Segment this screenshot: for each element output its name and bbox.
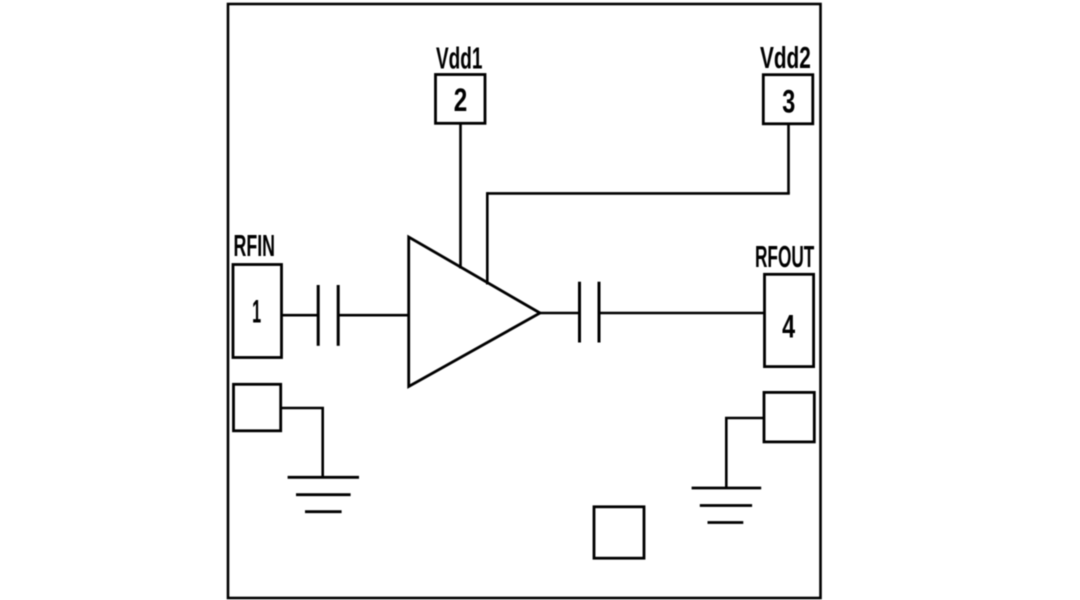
wire right ground pad horizontal — [725, 417, 764, 420]
bottom unconnected pad box — [594, 507, 644, 558]
wire amplifier output to capacitor C2 — [540, 312, 580, 315]
ground symbol left bar 2 — [296, 493, 351, 496]
svg-text:Vdd2: Vdd2 — [760, 40, 811, 75]
wire Vdd1 stub to amplifier — [459, 123, 462, 268]
wire left ground pad vertical — [321, 408, 324, 477]
wire left ground pad horizontal — [281, 407, 324, 410]
wire Vdd2 feed horizontal — [487, 192, 790, 195]
wire capacitor C2 to RFOUT pad — [599, 312, 765, 315]
ground symbol right bar 1 — [692, 487, 762, 490]
pad 1 box (RFIN) — [233, 265, 282, 358]
wire Vdd2 feed vertical to amplifier — [486, 192, 489, 284]
pad 4 box (RFOUT) — [765, 274, 814, 366]
ground symbol right bar 3 — [708, 521, 744, 524]
pad 2 box (Vdd1) — [436, 75, 486, 124]
svg-text:RFIN: RFIN — [234, 228, 276, 263]
left ground pad box — [234, 384, 281, 431]
wire RFIN pad to capacitor C1 — [282, 314, 319, 317]
svg-text:RFOUT: RFOUT — [755, 239, 814, 274]
capacitor C1 left plate — [317, 285, 320, 346]
op-amp U1 amplifier triangle — [409, 237, 540, 387]
svg-text:4: 4 — [782, 309, 795, 345]
wire capacitor C1 to amplifier input — [338, 314, 409, 317]
wire Vdd2 stub down from pad 3 — [787, 124, 790, 194]
svg-text:Vdd1: Vdd1 — [436, 41, 483, 76]
capacitor C2 left plate — [578, 282, 581, 343]
capacitor C1 right plate — [337, 285, 340, 346]
pad 3 box (Vdd2) — [763, 75, 813, 124]
ground symbol right bar 2 — [700, 504, 752, 507]
svg-text:2: 2 — [454, 82, 468, 118]
right ground pad box — [764, 392, 814, 442]
svg-text:3: 3 — [782, 84, 795, 120]
wire right ground pad vertical — [725, 418, 728, 488]
ground symbol left bar 3 — [305, 510, 342, 513]
chip outline border — [228, 4, 821, 598]
ground symbol left bar 1 — [288, 476, 359, 479]
svg-text:1: 1 — [252, 294, 261, 330]
capacitor C2 right plate — [598, 282, 601, 343]
